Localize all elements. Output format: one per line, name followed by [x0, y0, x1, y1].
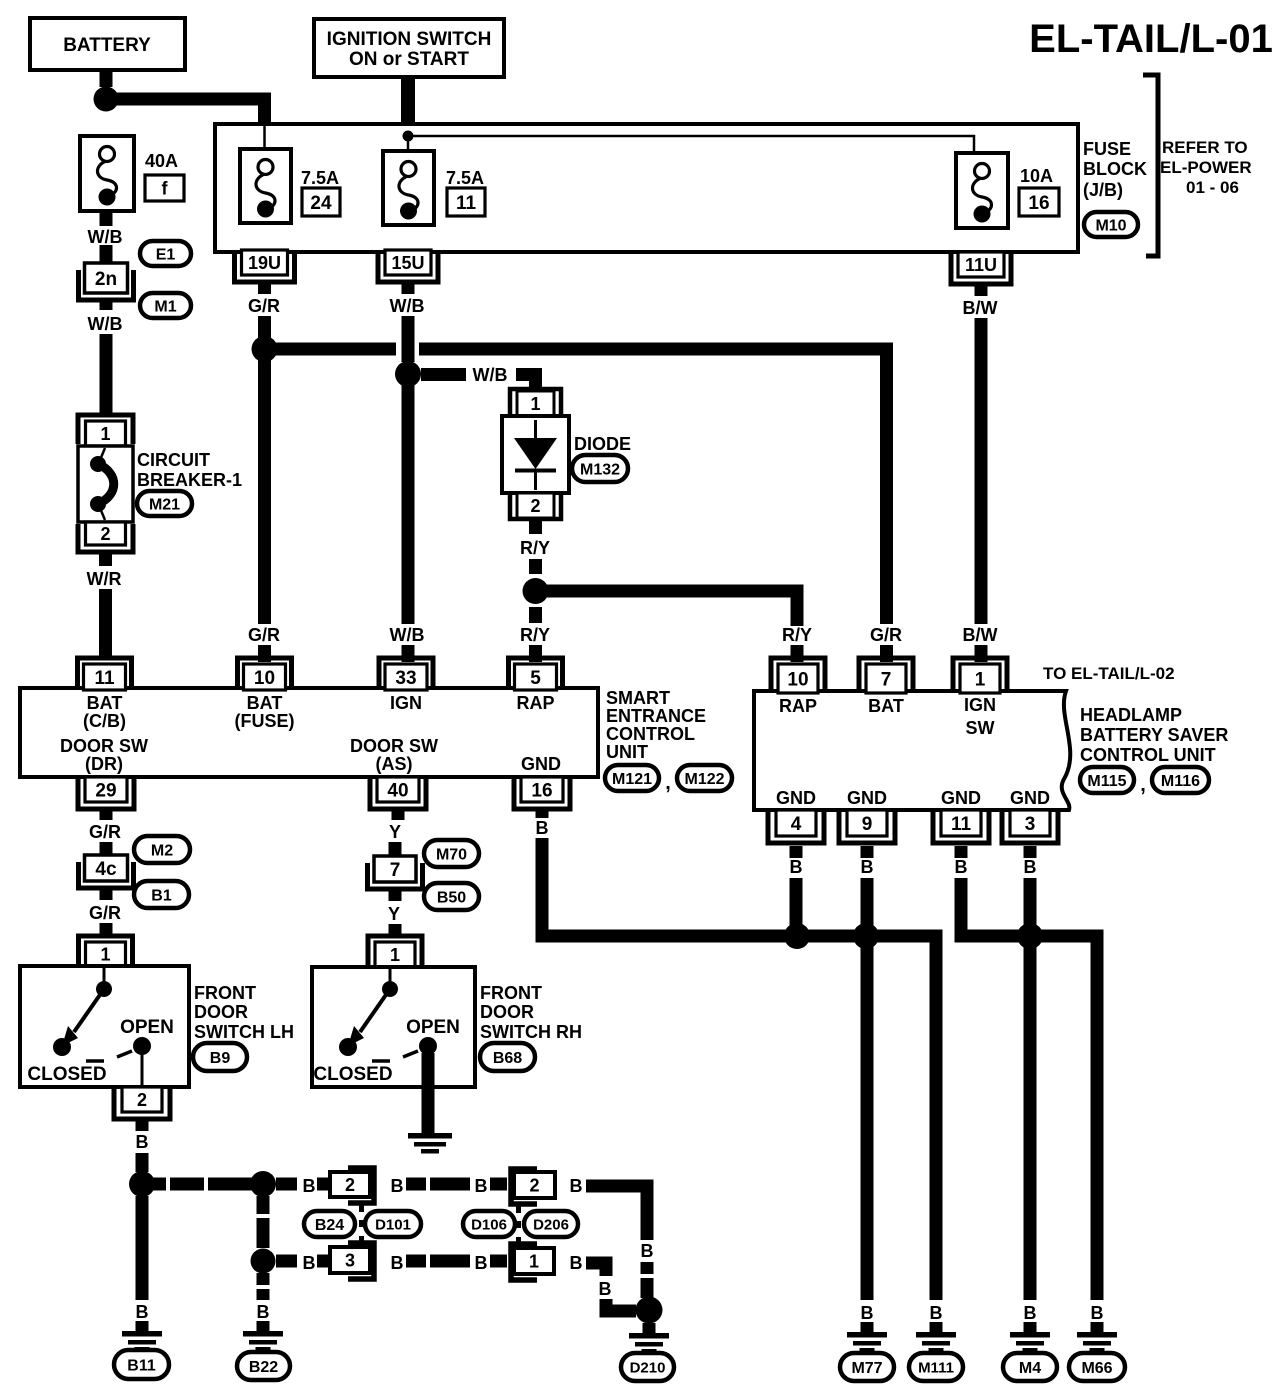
wire W/B down [402, 316, 415, 362]
svg-text:M70: M70 [436, 846, 467, 863]
svg-text:G/R: G/R [89, 822, 121, 842]
svg-text:1: 1 [530, 394, 540, 414]
svg-text:11U: 11U [965, 255, 997, 275]
svg-text:W/B: W/B [473, 365, 508, 385]
connector 2 D106/D206 [511, 1169, 537, 1204]
wire B pin4 stub [790, 846, 803, 858]
svg-text:M10: M10 [1095, 217, 1126, 234]
wire below breaker [99, 552, 112, 566]
node B junction LH [129, 1171, 155, 1197]
wire B/W down [975, 318, 988, 624]
svg-text:B: B [790, 857, 803, 877]
bracket refer-to [1143, 75, 1158, 256]
svg-text:11: 11 [94, 668, 115, 689]
svg-text:G/R: G/R [248, 296, 280, 316]
pin 29 DOOR SW DR [78, 779, 134, 809]
wire into pin 7 headlamp [880, 645, 893, 662]
svg-text:(J/B): (J/B) [1083, 180, 1123, 200]
svg-text:B: B [1091, 1303, 1104, 1323]
front door switch LH B9 [20, 966, 189, 1087]
svg-text:B11: B11 [127, 1357, 156, 1374]
svg-text:B: B [391, 1253, 404, 1273]
connector oval M132 [572, 455, 628, 482]
node B junction 2 [250, 1171, 276, 1197]
pin 10 BAT FUSE [238, 658, 292, 688]
svg-text:B68: B68 [493, 1050, 522, 1067]
svg-text:M77: M77 [851, 1360, 882, 1377]
svg-text:B50: B50 [437, 889, 466, 906]
svg-text:M21: M21 [149, 496, 180, 513]
svg-text:BREAKER-1: BREAKER-1 [137, 470, 242, 490]
svg-text:B: B [536, 818, 549, 838]
svg-text:TO EL-TAIL/L-02: TO EL-TAIL/L-02 [1043, 664, 1175, 683]
svg-text:16: 16 [1028, 193, 1049, 214]
svg-text:M122: M122 [684, 771, 724, 788]
svg-text:M116: M116 [1161, 773, 1200, 790]
svg-text:B: B [1024, 857, 1037, 877]
svg-text:B1: B1 [151, 887, 172, 904]
pin 1 door switch LH [79, 936, 133, 964]
svg-text:DOOR SW: DOOR SW [350, 736, 438, 756]
connector 3 B24/D101 [348, 1243, 374, 1279]
ground M66 [1091, 1322, 1104, 1333]
svg-text:DOOR SW: DOOR SW [60, 736, 148, 756]
svg-text:11: 11 [456, 193, 477, 214]
wire below 11U [975, 284, 988, 296]
wire B bus to M111 ground [542, 838, 936, 1300]
svg-text:B: B [599, 1279, 612, 1299]
svg-text:2: 2 [345, 1175, 355, 1195]
node B bus 2 [853, 923, 879, 949]
wire B down to D210 [641, 1262, 654, 1298]
connector oval B1 [134, 881, 189, 908]
pin 5 RAP [509, 658, 563, 688]
svg-text:7: 7 [390, 860, 401, 881]
svg-text:1: 1 [390, 945, 400, 965]
connector oval B9 [193, 1043, 247, 1071]
pin 40 DOOR SW AS [370, 779, 426, 809]
wire B pin3 stub [1024, 846, 1037, 858]
wire B dash [136, 1153, 149, 1172]
svg-text:IGN: IGN [964, 695, 996, 715]
wire B row2 to D210 [606, 1299, 636, 1311]
connector oval D106 [463, 1211, 515, 1237]
svg-text:B: B [861, 857, 874, 877]
svg-text:OPEN: OPEN [406, 1017, 460, 1038]
svg-text:E1: E1 [156, 246, 176, 263]
svg-text:G/R: G/R [870, 625, 902, 645]
pin 1 circuit breaker [78, 415, 133, 444]
wire to 2n [100, 245, 113, 265]
fusible link 40A f [80, 136, 134, 211]
wire stub [490, 1178, 507, 1191]
wire W/R to BAT C/B [99, 589, 112, 660]
svg-text:,: , [1140, 774, 1146, 796]
ground D210 [643, 1323, 656, 1334]
svg-text:OPEN: OPEN [120, 1017, 174, 1038]
svg-text:,: , [665, 772, 671, 794]
svg-text:1: 1 [100, 944, 110, 964]
pin 16 GND [514, 779, 570, 809]
svg-text:B: B [136, 1132, 149, 1152]
svg-text:B9: B9 [210, 1050, 231, 1067]
svg-text:B: B [303, 1176, 316, 1196]
wire G/R to door switch LH [100, 923, 113, 934]
wire below pin 16 [536, 809, 549, 818]
svg-text:G/R: G/R [248, 625, 280, 645]
svg-text:M111: M111 [918, 1359, 954, 1376]
svg-text:EL-TAIL/L-01: EL-TAIL/L-01 [1029, 17, 1273, 61]
wire below 2n [100, 300, 113, 310]
wire below pin 2 [136, 1119, 149, 1131]
connector oval M111 [909, 1353, 963, 1381]
wire B pin9 stub [861, 846, 874, 858]
svg-text:3: 3 [1025, 814, 1036, 835]
wire B row1 mid [406, 1178, 470, 1191]
pin 2 circuit breaker [78, 524, 133, 552]
svg-text:4c: 4c [95, 859, 117, 880]
wire B to ground B22 [257, 1273, 270, 1300]
svg-text:10: 10 [254, 668, 275, 689]
svg-text:40: 40 [387, 780, 408, 801]
connector oval B50 [424, 883, 479, 910]
connector 2 B24/D101 [348, 1168, 374, 1203]
svg-text:FRONT: FRONT [480, 983, 542, 1003]
pin 4 GND [768, 812, 824, 843]
svg-text:2: 2 [529, 1175, 539, 1195]
wire G/R bus to headlamp unit [265, 343, 397, 356]
svg-text:CLOSED: CLOSED [27, 1064, 106, 1085]
pin 10 RAP headlamp [771, 658, 825, 691]
svg-text:B: B [475, 1253, 488, 1273]
connector oval M1 [140, 293, 191, 318]
connector oval M116 [1152, 767, 1209, 793]
wire B to ground B11 [136, 1196, 149, 1300]
svg-text:W/R: W/R [87, 569, 122, 589]
svg-text:BLOCK: BLOCK [1083, 159, 1147, 179]
node G/R junction [252, 336, 278, 362]
svg-text:B: B [303, 1253, 316, 1273]
svg-text:GND: GND [776, 788, 816, 808]
wire into pin 10 [258, 645, 271, 662]
wire fusible link down [100, 211, 113, 226]
headlamp battery saver control unit M115 M116 [754, 691, 1070, 810]
svg-text:2: 2 [137, 1090, 147, 1110]
svg-text:CLOSED: CLOSED [313, 1064, 392, 1085]
svg-text:B24: B24 [315, 1217, 344, 1234]
svg-text:(FUSE): (FUSE) [235, 711, 295, 731]
pin 1 door switch RH [368, 936, 422, 965]
connector 1 D106/D206 [511, 1244, 537, 1280]
wire R/Y dash below [529, 607, 542, 623]
connector 11U [951, 254, 1011, 284]
svg-text:B: B [475, 1176, 488, 1196]
svg-text:DOOR: DOOR [194, 1002, 248, 1022]
svg-text:2: 2 [530, 496, 540, 516]
svg-text:4: 4 [791, 814, 802, 835]
svg-text:9: 9 [862, 814, 873, 835]
svg-text:7: 7 [881, 669, 892, 690]
fuse 10A 16 [956, 153, 1008, 228]
svg-text:5: 5 [530, 668, 541, 689]
svg-text:B: B [136, 1302, 149, 1322]
wire ignition switch down [401, 77, 415, 132]
svg-text:11: 11 [951, 814, 972, 835]
connector oval D101 [365, 1211, 421, 1237]
wire B pin11 to M66 ground [961, 878, 1097, 1300]
connector oval M21 [137, 491, 192, 516]
node W/B junction [395, 361, 421, 387]
svg-text:BATTERY: BATTERY [63, 35, 151, 56]
svg-text:R/Y: R/Y [520, 538, 550, 558]
wire below pin 29 [100, 809, 113, 820]
svg-text:IGNITION SWITCH: IGNITION SWITCH [327, 29, 492, 50]
connector oval B68 [480, 1043, 535, 1071]
svg-text:40A: 40A [145, 151, 178, 171]
wire battery down [100, 70, 113, 87]
wire thin to fuse 24 [263, 126, 266, 161]
connector oval D210 [621, 1353, 674, 1381]
svg-text:B: B [570, 1253, 583, 1273]
svg-text:B: B [570, 1176, 583, 1196]
svg-text:15U: 15U [391, 253, 424, 273]
svg-text:CIRCUIT: CIRCUIT [137, 450, 210, 470]
svg-text:ON or START: ON or START [349, 49, 469, 70]
wire W/B to circuit breaker [100, 334, 113, 415]
front door switch RH B68 [312, 967, 475, 1087]
connector oval M77 [840, 1353, 894, 1381]
svg-text:SWITCH LH: SWITCH LH [194, 1022, 294, 1042]
node B junction D210 [636, 1297, 663, 1324]
svg-text:EL-POWER: EL-POWER [1160, 158, 1252, 177]
svg-text:01 - 06: 01 - 06 [1186, 178, 1239, 197]
node B bus 1 [784, 923, 810, 949]
wire door switch RH to ground [422, 1053, 435, 1133]
connector 4c [79, 862, 134, 888]
pin 9 GND [839, 812, 895, 843]
svg-text:W/B: W/B [88, 314, 123, 334]
svg-text:M4: M4 [1019, 1360, 1041, 1377]
svg-text:M1: M1 [154, 298, 176, 315]
svg-text:FRONT: FRONT [194, 983, 256, 1003]
wire battery to fuse 24 [112, 99, 265, 127]
svg-text:GND: GND [521, 754, 561, 774]
connector 19U [235, 252, 295, 282]
svg-text:ENTRANCE: ENTRANCE [606, 706, 706, 726]
wire W/B branch [421, 368, 466, 381]
fuse 7.5A 11 [383, 151, 434, 225]
wire B down [257, 1196, 270, 1248]
wire into pin 1 headlamp [975, 645, 988, 662]
svg-text:B/W: B/W [963, 298, 998, 318]
svg-text:RAP: RAP [516, 693, 554, 713]
wire below pin 40 [392, 809, 405, 820]
svg-text:DIODE: DIODE [574, 434, 631, 454]
smart entrance control unit M121 M122 [20, 688, 598, 777]
wire B row2 mid [406, 1255, 470, 1268]
pin 11 BAT C/B [78, 658, 132, 688]
ground door switch RH [408, 1133, 452, 1139]
svg-text:SWITCH RH: SWITCH RH [480, 1022, 582, 1042]
connector oval M121 [605, 765, 659, 791]
svg-text:SW: SW [966, 718, 995, 738]
wire thin to fuse 16 [408, 136, 974, 159]
connector oval M2 [134, 836, 190, 863]
wire into pin 5 [529, 645, 542, 662]
pin 3 GND [1002, 812, 1058, 843]
svg-text:D106: D106 [471, 1216, 507, 1233]
svg-text:REFER TO: REFER TO [1162, 138, 1248, 157]
wire below 7 [389, 888, 402, 901]
svg-text:G/R: G/R [89, 903, 121, 923]
svg-text:7.5A: 7.5A [301, 168, 339, 188]
svg-text:B: B [930, 1303, 943, 1323]
wire below 15U [402, 282, 415, 294]
svg-text:W/B: W/B [390, 625, 425, 645]
svg-text:HEADLAMP: HEADLAMP [1080, 705, 1182, 725]
node B junction 3 [251, 1249, 276, 1274]
svg-text:1: 1 [975, 669, 986, 690]
connector oval M122 [677, 765, 732, 791]
svg-text:D210: D210 [630, 1359, 666, 1376]
svg-text:(AS): (AS) [376, 754, 413, 774]
wire Y to 7 [389, 842, 402, 856]
svg-text:1: 1 [100, 424, 110, 444]
diode M132 [502, 416, 569, 493]
svg-text:GND: GND [847, 788, 887, 808]
svg-text:B: B [257, 1302, 270, 1322]
wire B row1 to down [586, 1186, 647, 1240]
connector oval M115 [1080, 767, 1134, 793]
wire into pin 10 headlamp [791, 645, 804, 662]
connector oval B24 [304, 1211, 355, 1237]
svg-text:1: 1 [529, 1251, 539, 1271]
svg-text:M132: M132 [580, 461, 620, 478]
svg-text:W/B: W/B [390, 296, 425, 316]
svg-text:M66: M66 [1081, 1360, 1112, 1377]
svg-text:M2: M2 [151, 842, 173, 859]
wire B pin3 to M4 ground [1024, 878, 1037, 1300]
svg-text:SMART: SMART [606, 688, 670, 708]
svg-text:D101: D101 [375, 1216, 411, 1233]
svg-text:(C/B): (C/B) [83, 711, 126, 731]
node B bus 3 [1017, 923, 1043, 949]
wire stub [317, 1255, 330, 1268]
connector oval E1 [140, 241, 191, 266]
svg-text:CONTROL: CONTROL [606, 724, 695, 744]
pin 11 GND [933, 812, 989, 843]
svg-text:CONTROL UNIT: CONTROL UNIT [1080, 745, 1216, 765]
wire B pin4 [790, 878, 803, 930]
svg-text:B: B [861, 1303, 874, 1323]
svg-text:DOOR: DOOR [480, 1002, 534, 1022]
svg-text:B/W: B/W [963, 625, 998, 645]
battery [30, 18, 185, 70]
wire below diode [529, 519, 542, 534]
svg-text:33: 33 [395, 668, 416, 689]
ground M111 [930, 1322, 943, 1333]
wire below 4c [100, 887, 113, 900]
wire R/Y bus to RAP headlamp [546, 591, 797, 626]
svg-text:19U: 19U [248, 253, 281, 273]
connector 7 [368, 863, 423, 889]
tick marks connector joints [359, 1205, 364, 1212]
ground B22 [257, 1321, 270, 1332]
pin 1 diode [510, 389, 561, 416]
connector oval M4 [1003, 1353, 1057, 1381]
wire W/B into diode [516, 375, 536, 392]
ground B11 [136, 1321, 149, 1332]
wire Y to door switch RH [389, 924, 402, 936]
wire G/R to BAT FUSE [258, 360, 271, 624]
wire B row2 [276, 1255, 297, 1268]
wire R/Y dash [529, 559, 542, 574]
svg-text:RAP: RAP [779, 696, 817, 716]
svg-text:10: 10 [787, 669, 808, 690]
svg-text:IGN: IGN [390, 693, 422, 713]
svg-text:(DR): (DR) [85, 754, 123, 774]
ground M77 [861, 1322, 874, 1333]
svg-text:FUSE: FUSE [1083, 139, 1131, 159]
connector oval B22 [237, 1352, 290, 1380]
svg-text:BAT: BAT [87, 693, 123, 713]
ignition switch [314, 19, 504, 77]
svg-text:BAT: BAT [868, 696, 904, 716]
connector 2n [79, 270, 134, 300]
wire stub [490, 1255, 507, 1268]
pin 2 diode [510, 494, 561, 519]
ground M4 [1024, 1322, 1037, 1333]
node battery junction [94, 87, 119, 112]
svg-text:3: 3 [345, 1250, 355, 1270]
svg-text:B22: B22 [249, 1359, 278, 1376]
wire stub [317, 1178, 330, 1191]
svg-text:Y: Y [388, 904, 400, 924]
wire G/R to 4c [100, 842, 113, 856]
svg-text:M115: M115 [1087, 773, 1126, 790]
pin 7 BAT headlamp [859, 658, 913, 691]
node R/Y junction [523, 578, 549, 604]
svg-text:B: B [955, 857, 968, 877]
svg-text:7.5A: 7.5A [446, 168, 484, 188]
fuse block (J/B) box M10 [215, 124, 1078, 252]
fuse 7.5A 24 [240, 149, 291, 223]
svg-text:UNIT: UNIT [606, 742, 648, 762]
wire below 19U [258, 282, 271, 294]
svg-text:24: 24 [310, 193, 332, 214]
circuit breaker-1 M21 [78, 446, 133, 522]
svg-text:GND: GND [1010, 788, 1050, 808]
svg-text:16: 16 [531, 780, 552, 801]
svg-text:2: 2 [100, 524, 110, 544]
svg-text:10A: 10A [1020, 166, 1053, 186]
svg-text:2n: 2n [95, 269, 117, 290]
connector oval M10 [1084, 212, 1138, 237]
wire B pin11 stub [955, 846, 968, 858]
svg-text:29: 29 [95, 780, 116, 801]
svg-text:D206: D206 [533, 1216, 569, 1233]
connector oval B11 [114, 1350, 169, 1379]
wire G/R down [258, 316, 271, 340]
svg-text:B: B [1024, 1303, 1037, 1323]
svg-text:BAT: BAT [247, 693, 283, 713]
connector 15U [378, 252, 438, 282]
wire B pin9 to M77 ground [861, 878, 874, 1300]
wire thin to fuse 11 [407, 136, 410, 163]
connector oval M66 [1069, 1353, 1125, 1381]
wire into pin 33 [402, 645, 415, 662]
connector oval M70 [424, 840, 479, 867]
